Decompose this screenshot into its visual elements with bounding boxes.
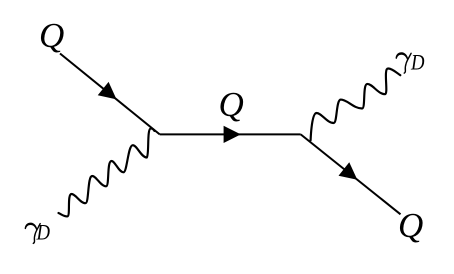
svg-text:Q: Q	[219, 85, 244, 124]
fermion line Q (outgoing, bottom-right)	[301, 134, 401, 214]
photon gamma_D (outgoing, top-right wavy)	[311, 68, 401, 140]
fermion line Q (incoming, top-left)	[60, 54, 160, 135]
svg-text:D: D	[410, 50, 424, 75]
label gamma_D (top-right): gamma glyph	[396, 52, 412, 73]
svg-text:Q: Q	[398, 206, 423, 245]
fermion propagator Q (horizontal)	[160, 133, 301, 135]
photon gamma_D (incoming, bottom-left wavy)	[59, 128, 155, 216]
arrowhead on propagator	[224, 126, 241, 143]
svg-text:Q: Q	[39, 16, 64, 55]
svg-text:D: D	[36, 220, 50, 245]
arrowhead on incoming Q line	[98, 82, 117, 100]
label gamma_D (bottom-left): gamma glyph	[25, 223, 41, 244]
arrowhead on outgoing Q line	[339, 162, 358, 179]
